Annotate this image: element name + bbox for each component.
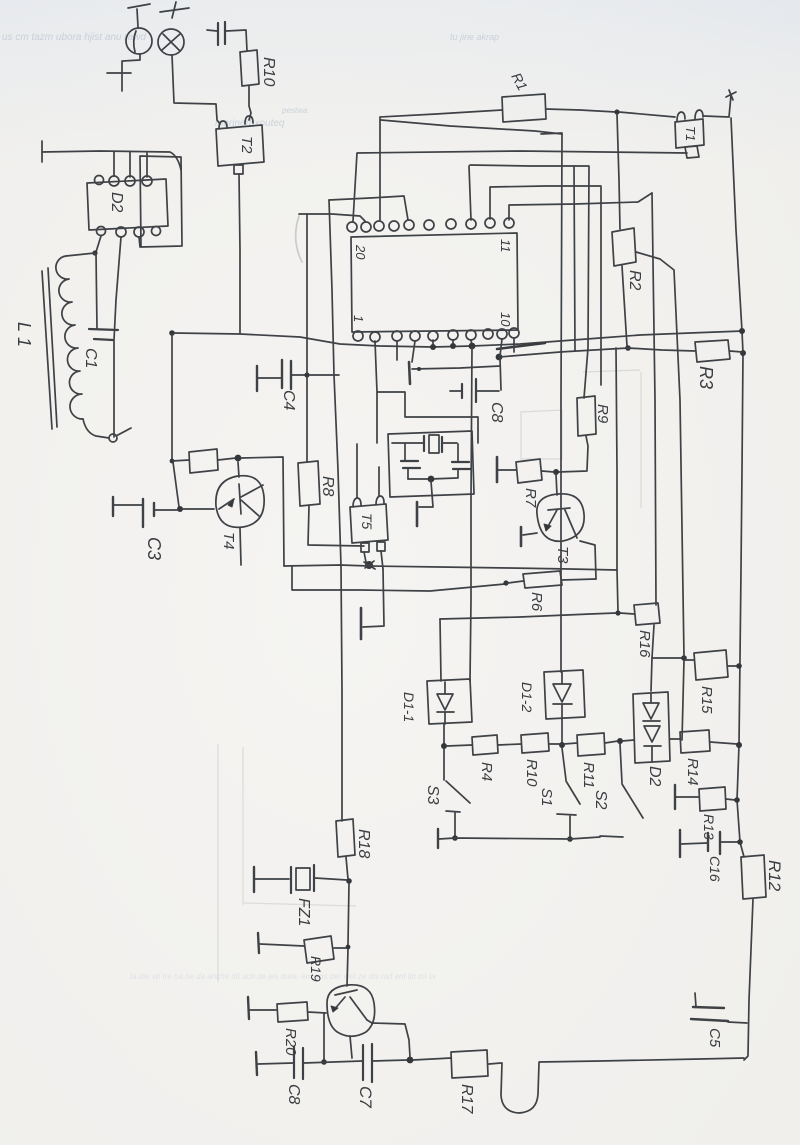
node S1 rail — [567, 836, 573, 842]
relay D2 top pins — [95, 176, 153, 187]
wire ground row — [412, 366, 500, 371]
svg-text:R8: R8 — [319, 476, 336, 497]
wire D1-2 to node — [561, 719, 563, 743]
wire T2 emitter down — [239, 174, 240, 333]
wire R6 to T3 — [580, 541, 596, 579]
wire junction to blob — [173, 462, 179, 507]
bus V601 — [600, 187, 602, 385]
wire R10 to T2 — [249, 86, 251, 120]
wire line 619 — [440, 613, 616, 619]
transistor T3 — [537, 494, 584, 541]
resistor R15 — [685, 650, 737, 680]
svg-text:R7: R7 — [522, 488, 539, 508]
wire T5 top stubs — [357, 444, 379, 498]
wire R1 left feed — [380, 110, 502, 221]
svg-text:pestwa: pestwa — [281, 106, 308, 115]
capacitor C3 — [113, 497, 178, 527]
switch S1 — [557, 748, 580, 837]
svg-text:R3: R3 — [696, 366, 716, 389]
svg-text:C7: C7 — [356, 1086, 375, 1108]
resistor R11 — [577, 733, 605, 756]
wire pin8 feed — [469, 165, 589, 220]
svg-text:D1-2: D1-2 — [519, 682, 535, 713]
wire capacitor C2 stub — [207, 30, 247, 51]
resistor R18 — [336, 819, 355, 857]
switch S3 — [444, 749, 470, 836]
capacitor C2 — [218, 22, 225, 45]
wire C7 to node — [373, 1060, 408, 1061]
wire lamp P2 to T2 — [172, 55, 220, 124]
wire node down to T4 branch — [171, 334, 173, 460]
wire pin10 feed — [509, 193, 652, 220]
svg-text:D1-1: D1-1 — [401, 692, 417, 722]
wire R15 left — [652, 657, 683, 659]
wire node to C1 — [96, 253, 97, 329]
svg-text:S3: S3 — [424, 785, 441, 805]
wire node R11 — [564, 743, 577, 744]
wire hop loop — [501, 1063, 539, 1113]
ghost crease lines — [218, 744, 356, 982]
wire line B — [499, 348, 695, 357]
wire node to D2 — [622, 740, 634, 741]
resistor R14 — [680, 730, 710, 753]
pin3 stub — [396, 341, 398, 360]
pin9 stub — [500, 339, 502, 356]
ground bar T3 — [521, 527, 537, 546]
wire lamp P1 to terminal — [123, 54, 140, 61]
node base blob — [177, 506, 183, 512]
capacitor C10 right — [452, 444, 470, 478]
svg-text:C8: C8 — [488, 402, 505, 423]
svg-text:C5: C5 — [706, 1028, 723, 1048]
svg-text:R20: R20 — [282, 1028, 299, 1056]
resistor R19 — [258, 933, 346, 963]
svg-text:10: 10 — [498, 312, 513, 327]
resistor R4 — [472, 735, 498, 755]
node junction — [92, 250, 97, 255]
wire pin2 top feed — [299, 214, 365, 221]
wire base node down — [323, 1014, 325, 1060]
node C4 — [304, 372, 309, 377]
svg-text:R14: R14 — [684, 758, 701, 786]
terminal cross — [107, 61, 131, 91]
pin5 stub and node — [430, 340, 436, 350]
capacitor C4 — [257, 360, 305, 391]
wire C8 to C7 — [304, 1061, 362, 1063]
svg-text:T2: T2 — [238, 136, 255, 154]
wire pin5 top feed — [329, 196, 408, 220]
wire R8 to T5 — [308, 506, 364, 546]
svg-text:T1: T1 — [683, 126, 698, 141]
bus right vertical — [731, 118, 744, 857]
wire T1 right — [704, 90, 736, 117]
minus terminal mark — [128, 4, 150, 27]
IC U1 bottom pins — [353, 328, 519, 342]
svg-text:R18: R18 — [355, 829, 372, 858]
svg-text:R6: R6 — [528, 592, 545, 612]
resistor R9 — [577, 396, 596, 436]
node C16 bus — [737, 839, 743, 845]
resistor R12 — [741, 855, 766, 899]
node R15 bus — [736, 663, 742, 669]
svg-text:11: 11 — [498, 239, 513, 253]
capacitor C5 — [691, 993, 747, 1023]
resistor R17 — [451, 1050, 501, 1078]
node T4 collector — [235, 455, 242, 462]
wire R11 node — [605, 741, 618, 743]
diode D2 dual — [633, 692, 670, 763]
node R14 bus — [736, 742, 742, 748]
crystal Q1 — [392, 435, 457, 453]
svg-text:R19: R19 — [308, 956, 324, 982]
svg-text:R4: R4 — [478, 762, 495, 781]
wire rail to C8 — [258, 1063, 293, 1064]
transistor T1 — [675, 110, 704, 158]
resistor R3 — [695, 340, 742, 362]
wire collector node right and down — [241, 457, 284, 566]
junction T4 branch — [170, 459, 175, 464]
svg-text:FZ1: FZ1 — [295, 898, 312, 926]
wire line A heavy overlap — [497, 343, 545, 349]
transistor T2 — [216, 116, 264, 174]
node S3 rail — [452, 835, 458, 841]
wire D2 pin to C1 bottom — [114, 237, 121, 437]
node FZ1 — [346, 878, 352, 884]
svg-text:L1: L1 — [14, 322, 34, 352]
wire branch v292 — [291, 567, 293, 589]
wire R1 to T1 — [546, 109, 616, 112]
capacitor C8 — [450, 358, 501, 402]
svg-text:1: 1 — [351, 315, 366, 322]
wire R18 to FZ1 node — [346, 857, 348, 879]
wire T3 collector stub — [556, 474, 557, 495]
wire T6 emitter — [367, 1020, 410, 1057]
wire branch to bus V561 — [381, 120, 562, 134]
ground rail bottom — [438, 829, 600, 848]
bus R12 down — [744, 899, 753, 1060]
wire top feed to bus V561 — [541, 133, 562, 134]
svg-text:R10: R10 — [523, 759, 540, 787]
resistor R2 — [612, 228, 636, 266]
resistor R7 — [498, 459, 554, 483]
svg-text:C4: C4 — [280, 390, 297, 411]
wire C4 node to R8 — [306, 377, 308, 462]
wire T4 emitter down — [240, 528, 241, 565]
lamp P2 — [158, 29, 184, 55]
crystal FZ1 — [254, 865, 347, 893]
pin6 stub and node — [450, 340, 456, 349]
resistor R5 unlabeled — [172, 449, 236, 473]
svg-text:R2: R2 — [626, 270, 643, 291]
svg-text:R13: R13 — [701, 814, 717, 840]
wire C4 node to V1 — [309, 374, 339, 376]
resistor R10 — [521, 733, 549, 753]
svg-text:T5: T5 — [359, 513, 375, 530]
wire R2 feed — [617, 114, 620, 229]
svg-text:R17: R17 — [458, 1084, 475, 1114]
capacitor C16 — [680, 830, 738, 857]
svg-text:D2: D2 — [646, 766, 663, 787]
svg-text:R15: R15 — [698, 686, 715, 714]
wire line A — [174, 331, 743, 347]
ground bar R13 — [675, 785, 699, 809]
svg-text:C8: C8 — [285, 1084, 302, 1105]
node S3 R4 — [441, 743, 447, 749]
wire D1-1 to node — [443, 724, 445, 744]
relay D2 bottom pins — [97, 227, 161, 238]
switch S2 — [600, 744, 643, 837]
wire V1 long vertical — [329, 200, 342, 821]
svg-text:us cm tazm ubora hjist anu raw: us cm tazm ubora hjist anu rawd — [2, 32, 146, 43]
ground bar R7 — [496, 457, 499, 482]
wire R9 to T3 node — [558, 436, 588, 472]
node S1 R10 R11 — [559, 742, 565, 748]
wire T6 bottom stub — [350, 1036, 352, 1058]
relay D2 top pin stubs — [114, 152, 147, 177]
node R13 bus — [734, 797, 740, 803]
capacitor C9 left — [401, 444, 420, 479]
wire crystal cap common — [408, 478, 457, 479]
node R19 — [346, 945, 351, 950]
node R6 left — [503, 580, 508, 585]
node bus681 R15 — [681, 655, 687, 661]
svg-text:R10: R10 — [260, 57, 277, 86]
node base rail — [321, 1059, 327, 1065]
bus V653 to R16 — [652, 193, 656, 605]
transistor T4 — [216, 476, 264, 528]
ground stub crystal — [417, 481, 433, 526]
IC U1 top pins — [347, 218, 514, 232]
svg-text:C3: C3 — [144, 537, 164, 560]
capacitor C8 bottom — [294, 1047, 303, 1079]
resistor R13 — [699, 787, 735, 811]
IC U1 body — [351, 233, 518, 332]
svg-text:20: 20 — [353, 244, 368, 260]
resistor R20 — [248, 997, 326, 1022]
resistor R1 — [502, 94, 546, 122]
ghost box — [521, 370, 641, 508]
wire pin9 feed — [490, 186, 601, 219]
svg-text:C1: C1 — [82, 348, 99, 368]
bus V681 — [636, 252, 684, 740]
crystal box — [388, 431, 474, 497]
wire R14 to bus — [710, 742, 737, 744]
resistor R16 — [634, 603, 660, 625]
plus terminal mark — [160, 2, 189, 18]
wire pin2 feed vertical — [306, 214, 308, 373]
svg-text:C16: C16 — [707, 856, 723, 882]
svg-text:R11: R11 — [580, 762, 597, 788]
svg-text:ta der wi tre ba ne da anche d: ta der wi tre ba ne da anche dit uch de … — [130, 972, 436, 981]
node S2 D2 — [617, 738, 623, 744]
wire T1 tab rail — [353, 151, 687, 221]
diode D1-2 — [544, 670, 585, 719]
node T5 scribble — [364, 561, 375, 569]
node crystal common — [428, 476, 435, 483]
svg-text:tu jine akrap: tu jine akrap — [450, 32, 499, 42]
wire T4 collector stub — [238, 462, 239, 477]
node line B pin9 — [496, 354, 503, 361]
wire pin2 to crystal box — [375, 341, 478, 443]
junction L1 C1 — [109, 434, 117, 442]
svg-text:R12: R12 — [765, 860, 784, 892]
wire line mid590 — [292, 584, 505, 591]
wire R4 R10 — [498, 744, 521, 745]
node R2 line B — [625, 345, 631, 351]
bus V616 — [616, 348, 618, 612]
bus V1 lower — [347, 883, 349, 986]
bus V561 — [561, 134, 562, 672]
svg-text:S1: S1 — [538, 788, 555, 806]
node T2-A — [169, 330, 175, 336]
wire node to R16 — [620, 613, 634, 614]
svg-text:T3: T3 — [554, 546, 571, 564]
wire row R4 — [447, 745, 472, 746]
svg-text:D2: D2 — [108, 192, 125, 213]
bus V472 — [470, 347, 472, 681]
node line B bus — [740, 350, 746, 356]
lamp P1 — [126, 28, 152, 54]
wire R10 node — [549, 743, 560, 745]
pin7 stub and node — [469, 340, 476, 349]
relay D2 body — [87, 179, 168, 230]
bus V574 — [574, 166, 575, 351]
ground bar bottom left — [256, 1052, 257, 1075]
wire line mid566 — [284, 565, 617, 570]
node emitter rail — [407, 1057, 414, 1064]
svg-text:S2: S2 — [592, 790, 609, 810]
wire node to R17 — [413, 1058, 451, 1060]
wire R2 to line B — [622, 266, 627, 346]
resistor R10 — [240, 50, 259, 86]
svg-text:R9: R9 — [594, 404, 611, 424]
pin4 stub and plate — [409, 341, 415, 384]
resistor R6 — [508, 571, 596, 588]
wire L1 bottom lead — [83, 419, 131, 438]
transistor T6 — [327, 985, 375, 1036]
node R1 T1 — [614, 109, 619, 114]
wire R16 to R15 D2 — [651, 625, 654, 691]
ground T5 — [361, 569, 384, 639]
wire D2 pin stub — [139, 237, 140, 247]
supply rail top-left — [42, 141, 181, 170]
wire D2 pin to node — [96, 236, 101, 252]
node V616 R16 — [615, 610, 620, 615]
inductor L1 core — [42, 268, 57, 429]
diode D1-1 — [427, 679, 472, 724]
wire D1-1 feed — [440, 619, 441, 681]
wire node to T1 — [619, 112, 675, 117]
pin10 stub — [513, 338, 515, 352]
stray arc — [296, 216, 302, 262]
relay D2 outer frame — [140, 156, 182, 247]
node T3 collector — [553, 469, 559, 475]
wire T5 tabs down — [364, 551, 383, 569]
svg-text:T4: T4 — [220, 532, 237, 550]
capacitor C7 — [363, 1044, 372, 1082]
bleed text rows — [2, 32, 499, 129]
node line A bus — [739, 328, 745, 334]
resistor R8 — [298, 461, 320, 506]
wire rail to bus corner — [539, 1058, 744, 1062]
transistor T5 — [350, 496, 388, 552]
bus V589 — [584, 167, 589, 398]
svg-text:R16: R16 — [636, 630, 653, 658]
wire blob to T4 base — [183, 508, 214, 510]
inductor L1 — [56, 256, 83, 419]
wire D2 to R14 — [670, 738, 680, 740]
capacitor C1 — [89, 329, 118, 340]
wire node to L1 — [66, 253, 95, 256]
